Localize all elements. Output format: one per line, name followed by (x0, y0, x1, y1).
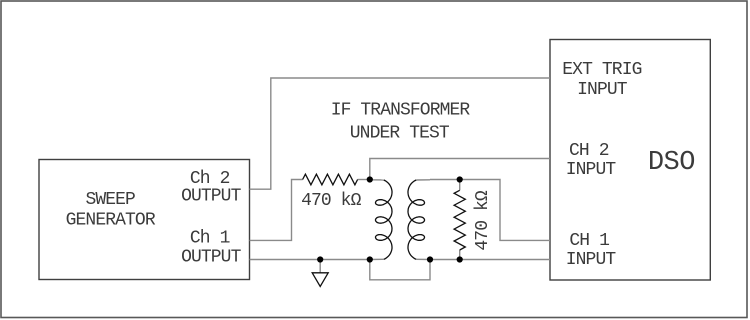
svg-text:IF TRANSFORMER: IF TRANSFORMER (331, 100, 471, 120)
DSO box (550, 40, 710, 281)
svg-text:OUTPUT: OUTPUT (181, 248, 242, 268)
wire U jumper primary to secondary bottom (370, 260, 430, 280)
junction ground node (317, 256, 323, 262)
wire primary bottom lead (370, 258, 384, 260)
resistor R1 zigzag (303, 174, 358, 185)
wire secondary top lead (416, 179, 430, 181)
wire Ch2 OUTPUT to EXT TRIG INPUT (250, 78, 551, 189)
svg-text:INPUT: INPUT (577, 80, 628, 100)
sweep generator box (39, 160, 250, 280)
resistor R2 zigzag (454, 190, 465, 250)
wire ground stub (319, 260, 321, 273)
ground symbol triangle (312, 273, 328, 287)
svg-text:470 kΩ: 470 kΩ (473, 190, 493, 251)
wire R2 bottom lead (459, 250, 461, 260)
wire secondary top to node B (430, 179, 460, 181)
wire Ch1 OUTPUT to R1 (250, 180, 303, 241)
wire R1 right lead to node A (358, 179, 370, 181)
svg-text:Ch 1: Ch 1 (190, 229, 230, 249)
svg-text:CH 1: CH 1 (569, 231, 609, 251)
svg-text:470 kΩ: 470 kΩ (301, 191, 362, 211)
wire node B to CH 1 INPUT (460, 180, 550, 241)
junction primary bottom (367, 256, 373, 262)
svg-text:INPUT: INPUT (566, 160, 617, 180)
junction node B (R2 top) (457, 176, 463, 182)
junction R2 bottom (457, 256, 463, 262)
svg-text:UNDER TEST: UNDER TEST (350, 124, 450, 144)
wire node A riser and CH2 rail (370, 159, 550, 180)
svg-text:EXT TRIG: EXT TRIG (562, 60, 641, 80)
svg-text:INPUT: INPUT (566, 250, 617, 270)
svg-text:GENERATOR: GENERATOR (66, 211, 156, 231)
svg-text:DSO: DSO (648, 148, 695, 178)
wire bottom rail left (250, 259, 370, 261)
junction secondary bottom (427, 256, 433, 262)
svg-text:SWEEP: SWEEP (85, 190, 135, 210)
transformer T1 secondary winding (408, 180, 425, 259)
transformer T1 primary winding (376, 180, 393, 259)
svg-text:OUTPUT: OUTPUT (181, 187, 242, 207)
wire secondary bottom lead (416, 258, 430, 260)
svg-text:CH 2: CH 2 (569, 141, 609, 161)
wire R2 top lead (459, 180, 461, 191)
wire node A to primary top (370, 179, 384, 181)
junction node A (R1 / primary top / CH2 rail) (367, 176, 373, 182)
wire bottom rail right to DSO (430, 259, 550, 261)
